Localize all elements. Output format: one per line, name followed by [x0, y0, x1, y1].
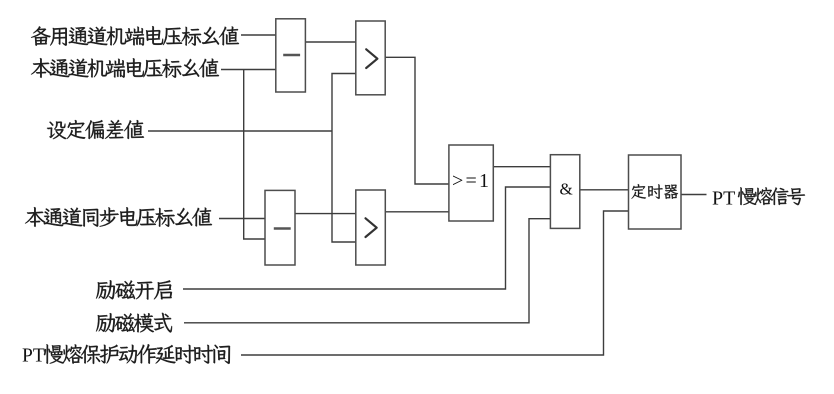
input label: 本通道机端电压标幺值	[31, 58, 219, 78]
wire: 本通道同步电压标幺值 to subtractor SUB2 input 1	[219, 218, 265, 220]
OR gate block	[449, 145, 493, 221]
minus symbol of SUB2	[274, 227, 291, 229]
input label: 备用通道机端电压标幺值	[31, 26, 239, 46]
wire: 励磁开启 to AND gate input 2	[183, 187, 550, 289]
svg-text:PT: PT	[22, 346, 45, 367]
timer block	[629, 155, 682, 229]
timer block text: 定时器	[631, 184, 678, 199]
AND gate block	[550, 155, 579, 229]
greater-than symbol of CMP1	[366, 49, 377, 68]
subtractor block SUB2	[265, 190, 295, 265]
wire: branch of 本通道机端电压标幺值 down to subtractor SUB2 input 2	[244, 70, 265, 240]
wire: 设定偏差值 to junction	[148, 130, 332, 132]
wire: 本通道机端电压标幺值 to subtractor SUB1 input 2	[221, 69, 276, 71]
output label: PT慢熔信号 (CJK part)	[738, 187, 805, 205]
wire: 备用通道机端电压标幺值 to subtractor SUB1 input 1	[241, 34, 276, 36]
wire: CMP2 output to OR gate input 2	[385, 211, 449, 213]
input label: PT慢熔保护动作延时时间 (CJK part)	[44, 344, 230, 364]
input label: 励磁开启	[96, 280, 172, 299]
input label: 设定偏差值	[47, 120, 144, 139]
wire: SUB1 output to CMP1 input 1	[305, 41, 355, 43]
svg-text:>=1: >=1	[452, 170, 491, 192]
wire: CMP1 output to OR gate input 1	[385, 57, 449, 184]
comparator block CMP1	[356, 21, 385, 95]
svg-text:PT: PT	[712, 188, 735, 210]
wire: timer output to PT慢熔信号	[681, 194, 707, 196]
comparator block CMP2	[356, 190, 386, 265]
input label: 本通道同步电压标幺值	[25, 207, 212, 227]
wire: OR gate output to AND gate input 1	[493, 166, 550, 168]
wire: 设定偏差值 vertical bus to comparator CMP1 and CMP2 inputs	[332, 74, 356, 243]
subtractor block SUB1	[276, 19, 306, 92]
wire: AND gate output to timer input 1	[580, 189, 629, 191]
input label: 励磁模式	[96, 313, 172, 333]
svg-text:&: &	[560, 180, 573, 199]
wire: 励磁模式 to AND gate input 3	[184, 219, 550, 323]
minus symbol of SUB1	[283, 54, 300, 56]
greater-than symbol of CMP2	[366, 218, 377, 237]
wire: SUB2 output to CMP2 input 1	[295, 213, 356, 215]
wire: PT慢熔保护动作延时时间 to timer input 2	[241, 211, 629, 355]
